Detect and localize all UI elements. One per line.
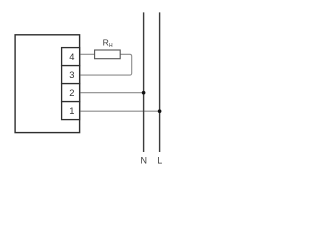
resistor RH	[95, 50, 121, 59]
svg-text:4: 4	[69, 51, 74, 62]
terminal 4	[62, 48, 80, 66]
junction node on N	[142, 91, 146, 95]
svg-text:3: 3	[69, 69, 74, 80]
line L	[159, 12, 161, 152]
terminal 2	[62, 84, 80, 102]
wire terminal 1 to L	[80, 110, 160, 112]
svg-text:L: L	[157, 156, 162, 166]
wire terminal 2 to N	[80, 92, 144, 94]
terminal 1	[62, 102, 80, 120]
line N	[143, 12, 145, 152]
wire resistor to terminal 3 loop	[80, 54, 132, 75]
terminal 3	[62, 66, 80, 84]
svg-text:N: N	[140, 156, 147, 166]
svg-text:2: 2	[69, 87, 74, 98]
svg-text:1: 1	[69, 105, 74, 116]
wire terminal 4 to resistor	[80, 53, 95, 55]
junction node on L	[158, 109, 162, 113]
device outline U1	[15, 35, 80, 133]
